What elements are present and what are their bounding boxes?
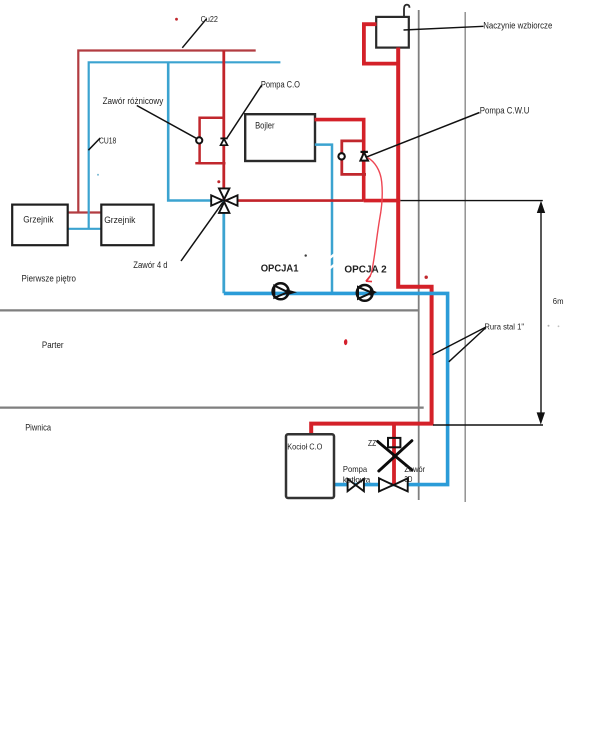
svg-text:Parter: Parter: [42, 340, 64, 350]
svg-text:Zawór różnicowy: Zawór różnicowy: [103, 96, 164, 106]
valve bowtie Pompa kotlowa: [348, 479, 364, 491]
svg-text:Cu22: Cu22: [201, 14, 219, 24]
wire blue return header CU18: [89, 62, 281, 229]
wire red boiler feed drop ZZ: [392, 424, 396, 485]
pointer CU18: [88, 138, 100, 150]
svg-text:Naczynie wzbiorcze: Naczynie wzbiorcze: [483, 21, 552, 31]
svg-text:Rura stal 1": Rura stal 1": [484, 321, 524, 331]
pump C.O check valve symbol: [220, 138, 227, 145]
svg-text:Bojler: Bojler: [255, 121, 275, 131]
wire red boiler hot supply: [315, 120, 364, 201]
valve bowtie Zawor 3D: [379, 478, 408, 491]
svg-text:Kocioł C.O: Kocioł C.O: [287, 441, 323, 451]
svg-text:Piwnica: Piwnica: [25, 422, 51, 432]
wire blue from riser drop to 4way: [168, 62, 224, 200]
stray blue dot: [97, 174, 99, 176]
freehand arrowhead: [366, 276, 372, 282]
expansion vessel Naczynie wzbiorcze: [376, 17, 409, 48]
vessel vent hook: [404, 5, 410, 17]
wire red radiator connector: [67, 211, 102, 213]
svg-text:Pompa C.O: Pompa C.O: [261, 79, 300, 89]
pipe break tick 1: [330, 254, 335, 258]
svg-text:kotłowa: kotłowa: [343, 475, 371, 485]
wire red main riser to 4-way valve: [222, 51, 225, 201]
wire red thick segment under CWU: [364, 199, 401, 203]
radiator Grzejnik 1: [12, 205, 67, 246]
svg-text:Grzejnik: Grzejnik: [104, 215, 136, 225]
svg-text:OPCJA 2: OPCJA 2: [344, 264, 387, 275]
pump OPCJA2: [357, 285, 375, 301]
radiator Grzejnik 2: [101, 205, 153, 246]
boiler Bojler: [245, 114, 315, 161]
stray dark dot: [305, 254, 307, 256]
svg-text:Zawór: Zawór: [404, 464, 425, 474]
svg-text:Pierwsze piętro: Pierwsze piętro: [22, 273, 77, 283]
pipe break tick 2: [330, 265, 335, 269]
wire blue radiator connector: [67, 228, 102, 230]
valve circle (zawor roznicowy): [196, 137, 202, 143]
wire blue pump line OPCJA: [224, 293, 448, 484]
pointer Zawor 4 d: [181, 202, 223, 261]
crossed-out mark X: [378, 441, 412, 471]
stray red dot B: [217, 180, 220, 183]
pointer Rura stal B: [449, 328, 486, 362]
ZZ square component: [388, 438, 400, 447]
floor line basement: [0, 407, 424, 409]
wire blue boiler return to drop: [315, 145, 332, 294]
svg-text:Pompa C.W.U: Pompa C.W.U: [480, 106, 530, 116]
wire red 4way to riser run: [224, 199, 364, 202]
wire red vessel left connection: [364, 24, 397, 63]
pump C.W.U check valve symbol: [360, 152, 368, 161]
wall line W2: [464, 12, 466, 502]
wire bypass overshoot tail: [195, 162, 199, 165]
pointer Rura stal A: [432, 327, 486, 355]
svg-text:6m: 6m: [553, 296, 564, 306]
boiler Kociol C.O: [286, 434, 334, 498]
wire red supply header Cu22: [78, 51, 255, 213]
wall line W1: [418, 10, 420, 500]
pointer Zawor roznicowy: [137, 106, 197, 139]
pointer Pompa C.W.U: [367, 113, 480, 157]
wire red main hot riser: [311, 48, 431, 435]
stray red dot C: [425, 276, 428, 279]
pump OPCJA1: [273, 283, 295, 299]
floor line first floor: [0, 309, 418, 311]
freehand red arrow to OPCJA2: [367, 158, 382, 281]
wire red differential valve bypass loop: [200, 118, 226, 163]
pointer Naczynie wzbiorcze: [404, 26, 484, 30]
pointer Pompa C.O: [227, 85, 262, 139]
4-way valve Zawor 4d: [211, 188, 237, 213]
stray gray dots: [548, 325, 550, 327]
wire blue 4way drop to pump line: [222, 201, 225, 294]
dimension line 6m: [400, 201, 545, 425]
valve circle on CWU loop: [338, 153, 344, 159]
svg-text:3D: 3D: [404, 474, 412, 484]
svg-text:OPCJA1: OPCJA1: [261, 263, 299, 274]
svg-text:ZZ: ZZ: [368, 438, 376, 448]
svg-text:CU18: CU18: [99, 136, 117, 146]
stray red mark comma: [344, 339, 347, 345]
svg-text:Grzejnik: Grzejnik: [23, 215, 54, 225]
stray red dot A: [175, 18, 178, 21]
pointer Cu22: [182, 19, 206, 48]
svg-text:Pompa: Pompa: [343, 464, 368, 474]
wire red pump CWU loop: [342, 141, 366, 175]
svg-text:Zawór 4 d: Zawór 4 d: [133, 260, 167, 270]
